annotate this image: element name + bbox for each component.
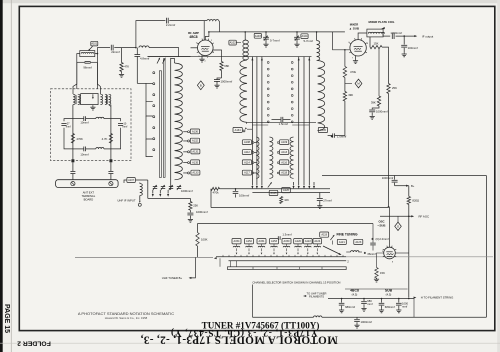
label 39K mixer [348, 93, 353, 97]
heater return bus 2 [322, 299, 487, 318]
svg-text:mmf: mmf [66, 125, 71, 128]
svg-text:A107: A107 [128, 178, 135, 182]
wire to B plus arrow [395, 185, 409, 187]
fold crease horizontal line bottom [0, 342, 500, 344]
ground decoupling [370, 115, 375, 119]
osc grid bus [198, 223, 374, 225]
filament wire [328, 298, 414, 300]
svg-text:100mmf: 100mmf [408, 46, 418, 50]
banks top bus [148, 56, 312, 58]
wire mixer cathode [355, 56, 357, 60]
pin number 9 [207, 57, 209, 59]
label 100mmf osc [239, 194, 249, 198]
label MIXER PLATE COIL [368, 20, 394, 24]
svg-text:(4,5): (4,5) [386, 292, 392, 296]
osc bus tick marks [223, 255, 343, 257]
bank3 bottom arrows [292, 182, 315, 189]
bank1 wafer bar 1 [159, 71, 161, 178]
star footnote near A105 [330, 135, 333, 139]
bank2 coil [240, 60, 247, 122]
svg-text:FINE TUNING: FINE TUNING [336, 232, 357, 236]
label box A109 [280, 140, 289, 145]
capacitor 10mmf row2 [73, 116, 96, 121]
PAGE 15 spine label [3, 304, 10, 333]
fold crease vertical line left [10, 0, 12, 352]
svg-text:2.2mmf: 2.2mmf [166, 23, 176, 27]
ground heater cap [354, 324, 359, 328]
osc bus 2 [229, 260, 347, 262]
wire trap bottom [77, 61, 98, 63]
balun winding left outer [73, 94, 75, 104]
left loop wire [64, 119, 73, 149]
svg-text:A122: A122 [305, 239, 312, 243]
label box A134 [233, 127, 242, 132]
svg-text:A135: A135 [192, 160, 199, 164]
bank3 tap coil segments [290, 137, 293, 178]
ground 15K osc [374, 278, 379, 282]
coil L2 interstage [139, 46, 149, 48]
label box A113 [280, 150, 289, 155]
bank3 stator line 1 [298, 57, 300, 183]
wire 25K down [388, 94, 390, 207]
svg-text:A102: A102 [230, 41, 237, 45]
svg-text:A104: A104 [302, 34, 309, 38]
resistor 15K osc injection [370, 37, 389, 50]
osc row coil leads [236, 244, 318, 255]
resistor 820 ohm [407, 196, 410, 204]
osc bus 1 [214, 257, 346, 259]
label box A151 [257, 239, 266, 244]
pin number 3 [212, 52, 214, 54]
bank1 bottom wiper arrow 3 [167, 190, 169, 197]
label 100K [201, 238, 208, 242]
resistor 68K [220, 62, 223, 71]
selector shaft bar [228, 267, 347, 270]
wire coil to plate bus [218, 21, 221, 32]
osc bus 1 left tail [75, 256, 213, 258]
svg-text:47K: 47K [124, 65, 129, 69]
label UHF IF INPUT [117, 199, 135, 203]
bank3 coil upper link [317, 32, 320, 61]
label 1000mmf filament [402, 302, 408, 309]
tube V2 mixer half 4BC8 [349, 38, 367, 56]
label MIXER [350, 23, 359, 27]
mixer plate coil slug marker [381, 27, 385, 29]
wire RF tube pin3 right [213, 50, 222, 62]
svg-text:39K: 39K [348, 93, 353, 97]
svg-text:36mmf: 36mmf [367, 252, 376, 256]
label box A112 [242, 150, 251, 155]
wire A107 to bank1 [135, 180, 148, 198]
svg-text:A119: A119 [321, 233, 327, 237]
svg-text:1000mmf: 1000mmf [196, 210, 208, 214]
label box A133 [191, 170, 200, 175]
svg-text:A109: A109 [281, 140, 288, 144]
svg-text:1000mmf: 1000mmf [221, 80, 233, 84]
svg-text:25K: 25K [193, 204, 198, 208]
label 470k osc [212, 191, 219, 195]
svg-text:15K: 15K [374, 41, 379, 45]
label box A125 [269, 190, 278, 195]
label 4.7K [102, 137, 108, 141]
label terminal 2 [347, 260, 349, 264]
label 1000mmf b plus [382, 176, 394, 180]
bank2 tap coil segments [270, 137, 273, 178]
label box A116 [280, 160, 289, 165]
label box A153 [270, 239, 279, 244]
bank2 coil upper link [243, 40, 246, 60]
label 68K [224, 64, 229, 68]
label 5-7mmf group2 [304, 39, 314, 43]
wire 68K to cap [221, 71, 223, 79]
wire heater rail down [408, 216, 410, 297]
label box A105 [318, 127, 327, 132]
svg-text:FOLDER 2: FOLDER 2 [17, 340, 51, 347]
bank1 tap stub 2 [146, 83, 153, 101]
label 10K osc [284, 198, 289, 202]
balun winding right 1 [100, 94, 102, 104]
svg-text:A124: A124 [314, 239, 321, 243]
RF AGC wire [380, 215, 414, 217]
label 4.8mmf [140, 56, 150, 60]
svg-text:22mmf: 22mmf [111, 50, 120, 54]
filament cap 2 [361, 299, 367, 308]
svg-text:4.8mmf: 4.8mmf [140, 56, 150, 60]
wire 820 down [406, 186, 409, 197]
svg-text:680mmf: 680mmf [385, 305, 395, 309]
svg-text:A151: A151 [259, 239, 266, 243]
wire A102 link [236, 42, 241, 44]
ground filament cap 2 [361, 307, 366, 311]
coil L3 top right [207, 20, 219, 21]
label 15K osc [380, 271, 385, 275]
bank1 coil taps to boxes [183, 131, 189, 174]
wire mixer grid return 2 [344, 78, 346, 92]
resistor 4.7K right [109, 134, 112, 144]
svg-text:(4,5): (4,5) [352, 292, 358, 296]
svg-text:A126: A126 [283, 188, 290, 192]
wire osc grid drop2 [372, 246, 374, 251]
wire L2 to bank1 top [149, 48, 179, 57]
svg-text:PAGE 15: PAGE 15 [3, 304, 10, 333]
capacitor 1000mmf decoupling [369, 106, 379, 115]
label box A102 [229, 40, 236, 45]
label 47K [124, 65, 129, 69]
svg-text:RF AGC: RF AGC [419, 215, 430, 219]
label TO UHF TUNER FILAMENTS [307, 292, 327, 299]
svg-text:1000mmf: 1000mmf [390, 31, 402, 35]
trap capacitor C1 [85, 61, 91, 63]
svg-text:FILAMENTS: FILAMENTS [309, 295, 324, 299]
label box A107 [127, 178, 135, 183]
svg-text:MOTOROLA MODELS 17P3-1, -2, -3: MOTOROLA MODELS 17P3-1, -2, -3, [140, 334, 337, 346]
label box A132 [190, 138, 199, 143]
label box A114 [242, 160, 251, 165]
bank1 coil [175, 62, 183, 180]
terminal dot left at dashed edge [71, 159, 74, 162]
capacitor 10mmf row4 [73, 147, 96, 152]
svg-text:BOARD: BOARD [84, 198, 94, 202]
star footnote osc [371, 237, 374, 241]
junction dots plate bus [244, 31, 317, 33]
bank1 tap stub 3 [146, 102, 153, 116]
capacitor 1000mmf IF series [392, 33, 394, 39]
label 100mmf IF [408, 46, 418, 50]
resistor 100K osc grid [196, 224, 199, 258]
bank bottom bus 1 [220, 188, 331, 190]
terminal dot right at dashed edge [109, 159, 112, 162]
trap A102 coil [245, 32, 248, 60]
svg-text:A121: A121 [339, 240, 346, 244]
bank1 bottom wiper arrow 1 [152, 190, 154, 197]
svg-text:(C)2.2mmf: (C)2.2mmf [376, 237, 389, 241]
wire osc grid drop [372, 224, 374, 243]
resistor 470k osc [211, 187, 220, 190]
label box A121 [337, 239, 346, 244]
svg-text:680mmf: 680mmf [345, 305, 355, 309]
wire RF grid [191, 47, 198, 49]
osc row coils [233, 246, 320, 247]
bank3 contact dots column [291, 62, 293, 123]
tube V1 RF amplifier 4BC8 [197, 39, 214, 56]
pin number 4 [204, 61, 206, 63]
svg-text:mmf: mmf [367, 302, 372, 306]
bank1 contact dots column [153, 72, 155, 151]
label 2.2mmf [166, 23, 176, 27]
bank1 bottom trimmer 2 [161, 184, 166, 190]
bank2 tap coils [252, 142, 256, 174]
svg-text:A103: A103 [255, 34, 262, 38]
junction dot A101 node [97, 53, 99, 55]
bank1 bottom trimmer 3 [169, 184, 174, 190]
label C 2.2mmf [376, 237, 389, 241]
ground filament cap 1 [339, 309, 344, 313]
svg-text:A120: A120 [295, 239, 302, 243]
svg-text:A117: A117 [244, 171, 250, 175]
balun winding right 2 [105, 94, 107, 104]
svg-text:470K: 470K [76, 137, 83, 141]
svg-text:5-7mmf: 5-7mmf [304, 39, 314, 43]
B plus feed bus [322, 175, 486, 177]
bank bottom bus 2 [252, 192, 330, 194]
svg-text:mmf: mmf [122, 125, 127, 128]
filament cap 4 [396, 299, 402, 309]
trimmer arrow A125 [268, 182, 273, 188]
osc shield bottom edge [211, 207, 389, 209]
ground bank1 bottom [188, 218, 193, 222]
balun winding left inner [78, 94, 80, 104]
title TUNER #1V745667 (TT100Y) [202, 321, 320, 331]
svg-text:IF output: IF output [422, 34, 433, 38]
label 1000mmf bank1 gnd [196, 210, 208, 214]
svg-text:1000mmf: 1000mmf [376, 110, 388, 114]
trimmer arrow A101 [88, 46, 93, 51]
svg-text:ANT EXT: ANT EXT [83, 190, 95, 194]
label OSC [378, 220, 384, 224]
label 1.5mmf [279, 122, 289, 126]
label box A152 [245, 239, 254, 244]
svg-text:A134: A134 [235, 128, 242, 132]
ground 100mmf IF [402, 53, 407, 57]
svg-text:CHANNEL SELECTOR SWITCH SHOWN: CHANNEL SELECTOR SWITCH SHOWN IN CHANNEL… [252, 280, 340, 284]
label box A119 [320, 232, 329, 237]
svg-text:39K: 39K [371, 101, 376, 105]
svg-text:100K: 100K [201, 238, 208, 242]
label 15K mixer [374, 41, 379, 45]
label 1000mmf decoupling [376, 110, 388, 114]
junction dot b plus [0, 0, 1, 1]
bank2 inner tap coil [256, 137, 259, 178]
label box A108 [242, 140, 251, 145]
label 36mmf [367, 252, 376, 256]
capacitor 100mmf osc [233, 188, 239, 198]
label 1000mmf bank1 [181, 189, 193, 193]
label 1000mmf heater [361, 320, 373, 324]
right loop wire [111, 119, 121, 149]
svg-text:A105: A105 [320, 128, 327, 132]
svg-text:15K: 15K [380, 271, 385, 275]
ground trimmer group 1 [263, 43, 268, 47]
svg-text:SUB: SUB [385, 289, 393, 293]
label box A120 [294, 239, 303, 244]
wire filter drop left [72, 162, 74, 171]
svg-text:96mmf: 96mmf [83, 65, 92, 69]
label MIXER SUB [349, 27, 360, 31]
capacitor 1000mmf b plus [392, 176, 398, 186]
svg-text:A150: A150 [284, 239, 291, 243]
svg-text:A132: A132 [192, 139, 199, 143]
label RF AMP [188, 31, 199, 35]
label SUB pins [386, 292, 392, 296]
label box A101 [91, 41, 98, 46]
connector break bars right [108, 172, 113, 180]
wire trap left lead [77, 54, 80, 89]
balun core lines right [106, 95, 107, 104]
wire trap right lead [95, 54, 98, 89]
wire filter drop right [110, 162, 112, 171]
filter rail right [109, 105, 111, 161]
label 10mmf row4 [80, 153, 88, 157]
label box A135 [191, 160, 200, 165]
pin osc 9 [382, 251, 384, 253]
ground below 1000mmf [214, 84, 219, 88]
label 1000mmf rf bypass [221, 80, 233, 84]
label 4BC8 filament [350, 289, 359, 293]
inverted model line Y17P3 [170, 327, 317, 338]
resistor 39K decoupling [377, 49, 380, 106]
shaft divider ticks [253, 267, 322, 269]
label 10 mmf right [122, 122, 127, 128]
resistor 25K decoupling [387, 84, 390, 94]
balun center arrow [92, 94, 94, 99]
wire osc plate up [388, 206, 390, 247]
wire plate coil to cap [383, 33, 390, 36]
filament cap 3 [379, 299, 385, 309]
svg-text:A123: A123 [355, 240, 362, 244]
label 470k mixer [350, 70, 357, 74]
label 1.0mmf star [337, 135, 347, 139]
capacitor 2.2mmf series top [166, 18, 168, 24]
bank1 stator line [170, 58, 172, 190]
svg-text:1.3mmf: 1.3mmf [282, 232, 292, 236]
wire osc cathode down [377, 253, 384, 268]
label 39K decoupling [371, 101, 376, 105]
tube V3 oscillator [383, 246, 397, 259]
ground 27mmf [317, 205, 322, 209]
capacitor 27mmf left loop [61, 124, 66, 126]
svg-text:A152: A152 [246, 239, 253, 243]
label 22mmf [111, 50, 120, 54]
bank1 wiper arrow 2 [163, 57, 167, 63]
label box A122 [304, 239, 313, 244]
label OSC SUB [378, 224, 386, 228]
pin osc 8 [392, 262, 394, 264]
filament arrow H [414, 297, 417, 299]
capacitor 1000mmf bank1 gnd [187, 210, 193, 218]
diamond test point B [197, 81, 204, 90]
diamond test point M [345, 79, 362, 88]
capacitor 1.0mmf osc coupling [328, 133, 345, 137]
bank2 box link circles [243, 122, 247, 132]
wire 820 to AGC [408, 204, 410, 216]
svg-text:A116: A116 [281, 160, 287, 164]
wire top feedback right [169, 20, 207, 22]
osc rotor arrow [323, 246, 342, 256]
label box A104 [301, 34, 308, 39]
terminal screw left [71, 182, 75, 186]
svg-text:25K: 25K [392, 86, 397, 90]
svg-text:UHF TUNER B+: UHF TUNER B+ [162, 276, 183, 280]
ground trimmer group 2 [294, 43, 299, 47]
svg-text:A136: A136 [192, 129, 199, 133]
wire RF plate up [205, 32, 209, 40]
svg-text:10mmf: 10mmf [80, 120, 88, 124]
label B plus [411, 184, 415, 188]
svg-text:820Ω: 820Ω [412, 199, 419, 203]
label box A126 [282, 188, 291, 193]
svg-text:H TO FILAMENT STRING: H TO FILAMENT STRING [421, 296, 453, 300]
svg-text:A154: A154 [234, 239, 241, 243]
label box A103 [254, 33, 261, 38]
diamond test point O [395, 216, 402, 230]
label box A117 [242, 170, 251, 175]
bank2 stator line 1 [251, 57, 253, 183]
resistor 470K left [71, 134, 74, 144]
photofact note line 1 [78, 311, 174, 316]
resistor 47K to ground [120, 48, 123, 74]
label 1.3mmf [282, 232, 292, 236]
bank3 tap circles [277, 142, 279, 174]
ANT EXT terminal board [56, 180, 119, 188]
bank1 top bus [148, 56, 191, 58]
label 470K [76, 137, 83, 141]
svg-text:A108: A108 [244, 140, 251, 144]
osc shield left edge [210, 189, 212, 208]
ground below mixer [353, 60, 358, 64]
wire 22mmf to junction [114, 47, 136, 49]
heater return bus [253, 316, 314, 318]
label 680mmf 1 [345, 305, 355, 309]
svg-text:1000mmf: 1000mmf [361, 320, 373, 324]
label 27mmf [323, 199, 332, 203]
bank3 stator line 3 [308, 57, 310, 183]
wire RF cathode down [201, 55, 203, 58]
wire plate bus to mixer grid [333, 32, 350, 50]
svg-text:A112: A112 [244, 150, 250, 154]
label RF AGC [419, 215, 430, 219]
wire trap to RF line [97, 48, 110, 54]
svg-text:mmf: mmf [402, 304, 407, 308]
